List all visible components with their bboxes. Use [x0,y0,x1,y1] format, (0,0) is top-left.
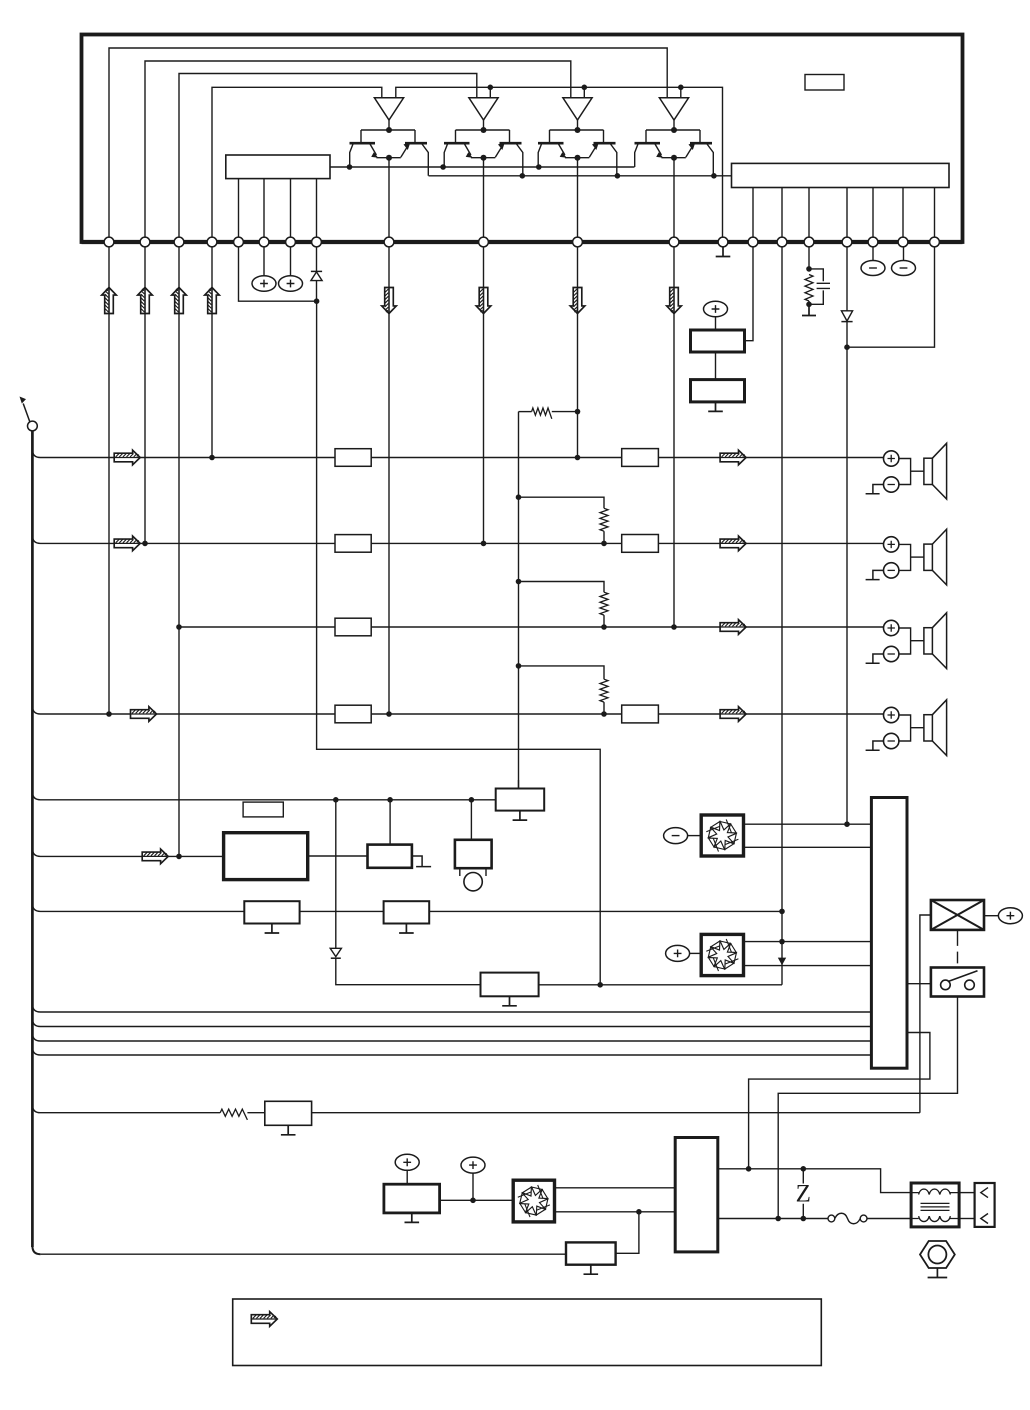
wire: CH4 output net down to row3 [673,247,675,627]
voltage regulator block (thick) 2 [691,380,745,402]
junction: out2/row2 [481,541,487,547]
junction: out3/feedback tap [575,409,581,415]
wire: control block pin 5 [872,188,874,243]
block A on row7 [244,901,299,923]
speaker SP3 with +/- terminals (CH3) [866,613,947,669]
wire: feedback ladder into supply block top [518,780,520,789]
junction: rail1/Q1 [347,164,353,170]
wire: emitter rail 1 [330,166,635,168]
legend box [233,1299,822,1366]
op-amp A4 + output pair Q4 (CH4) [635,98,714,242]
junction: R7/row3 [601,624,607,630]
wire: pin 934 to D2 node [847,247,935,347]
row5 supply block [496,789,545,811]
junction: ladder tap 2 [516,579,522,585]
terminal (-) at N1 [664,828,702,844]
row1 wire (CH1 input) [32,450,883,458]
block B on row7 [384,901,430,923]
illumination lamp L1 [931,900,984,930]
junction: input1/row4 [106,711,112,717]
signal-flow arrow (down) on output net x=577.5 [570,288,585,314]
junction: input2/row2 [142,541,148,547]
signal-flow arrow on row at y=543.4 (right) [720,536,746,551]
junction: R6/row2 [601,541,607,547]
junction: upper line / Z [801,1166,807,1172]
series component R1b on row [622,449,659,467]
speaker SP2 with +/- terminals (CH2) [866,529,947,585]
wire: pin4 input net down to row1 [211,247,213,458]
junction: row5/supply-diode net [333,797,339,803]
junction: rail2/Q4 [711,173,717,179]
row4 wire (CH4 input) [32,706,883,714]
feedback ladder vertical net [518,412,520,789]
junction: N3 lower / block E riser [636,1209,642,1215]
capacitor C2 (+) at pin 290 [279,247,303,291]
capacitor C1 (+) at pin 264 [252,247,276,291]
series component R4a on row 4 [335,705,371,723]
terminal (+) at N2 [666,945,702,961]
junction: switch net at battery line [775,1216,781,1222]
junction: D2 node [844,344,850,350]
capacitor C3 (-) at pin 873 [861,247,885,276]
series component R1a on row 1 [335,449,371,467]
diode D2 at pin 847 (cathode down) [841,247,852,347]
block E (filter) [566,1242,616,1264]
wire: block C output to pin782 net [539,966,782,985]
ground below block D [405,1213,420,1223]
bus wire 4 from trunk to CN1 [32,1047,871,1055]
bus wire 3 from trunk to CN1 [32,1033,871,1041]
feedback resistor R7 to row3 [519,582,609,628]
label box above main block [243,802,283,817]
signal-flow arrow (down) on output net x=674 [667,288,682,314]
antenna/source terminal at trunk top [20,397,38,431]
signal-flow arrow (up) on pin net x=145 [138,288,153,314]
motor symbol below block2 [460,868,486,891]
op-amp A2 + output pair Q2 (CH2) [444,98,523,242]
wire: lamp to dial-lamp feed [920,915,931,1113]
power switch S1 [931,968,984,997]
junction: ladder tap 1 [516,494,522,500]
junction: input3/row6 [176,854,182,860]
junction: lamp path at power line [746,1166,752,1172]
ground below block A [265,924,280,934]
series component R3a on row 3 [335,618,371,636]
IC pin circles (pins 1-20) [104,237,939,247]
junction: bias rail at A2 [488,85,494,98]
IC internal pre-driver block [226,155,330,179]
junction: D2 net at connector line [844,821,850,827]
capacitor C6 (+) above block D [395,1154,419,1184]
sub block 2 (motor) [455,840,492,868]
diode D3 on supply-diode net (cathode down) [330,948,341,958]
interference source box N2 [701,934,743,975]
wire: N1 upper output to connector [744,823,872,825]
interference source box N1 [701,815,743,856]
power connector block CN2 (bottom) [675,1138,718,1252]
wire: internal bias rail to pin 723 [396,87,723,242]
junction: lower line / Z [801,1216,807,1222]
junction: row5/block1 feed [387,797,393,803]
main harness trunk (vertical) [31,431,34,1247]
series component R3b on row [622,705,659,723]
wire: switch to battery line [778,997,957,1219]
row2 wire (CH2 input) [32,535,883,543]
interference source box N3 [513,1180,554,1222]
wire: D1 node down, across, down to supply block C [317,301,601,985]
speaker SP1 with +/- terminals (CH1) [866,443,947,499]
sub block 1 [368,845,412,868]
wire: pre-driver pin d [316,179,318,242]
wire: pin 238 to D1 node [239,247,317,301]
ground below block F [281,1125,296,1135]
junction: bias rail at A3 [582,85,588,98]
wire: N3 lower output to power block [555,1211,676,1213]
signal-flow arrow on row at y=457.5 (right) [720,450,746,465]
arrow terminal: pin782 at supply line [778,958,786,966]
signal-flow arrow on row at y=714 (left) [131,707,157,722]
chassis nut/screw ground [920,1241,955,1278]
junction: pin782/ACC line [779,939,785,945]
svg-text:Z: Z [796,1181,811,1208]
wire: block F to lamp vertical [312,1112,920,1114]
bus wire 1 from trunk to CN1 [32,1004,871,1012]
power unit block D [384,1184,440,1213]
legend signal-flow arrow [251,1312,277,1327]
wire: T1 to plug lower [959,1218,975,1220]
wire: N3 upper output to power block [555,1187,676,1189]
wire: block2 feed from row5 [470,800,472,840]
junction: ladder tap 3 [516,663,522,669]
feedback resistor R6 to row2 [519,497,609,543]
wire: CN2 upper power line to transformer [718,1169,911,1193]
signal-flow arrow (down) on output net x=389 [382,288,397,314]
wire: pin2 input net down to row2 [144,247,146,543]
ground below block C [502,996,517,1006]
wire: CN2 lower power line to fuse [718,1218,828,1220]
junction: R8/row4 [601,711,607,717]
wire: control block pin 2 [781,188,783,243]
wire: R9 to block F [247,1112,264,1114]
junction: input3/row3 [176,624,182,630]
op-amp A3 + output pair Q3 (CH3) [538,98,617,242]
wire: D2 node down to ACC input line [846,347,848,824]
wire: control block pin 4 [846,188,848,243]
junction: out4/row3 [671,624,677,630]
row3 wire (CH3) [179,626,883,628]
wire: emitter rail 2 [429,175,732,177]
chassis tab at block1 [412,856,431,867]
mechanical link (dashed) lamp-switch [957,930,959,964]
junction: rail2/Q2 [520,173,526,179]
feedback resistor R8 to row4 [519,666,609,714]
wire: control block pin 3 [808,188,810,243]
wire: pin4 net to op-amp A1 top input [212,87,382,242]
junction: rail2/Q3 [615,173,621,179]
signal-flow arrow on row at y=457.5 (left) [114,450,140,465]
junction: rail1/Q2 [440,164,446,170]
main function block (thick) [224,833,308,880]
wire: pin 753 to regulator block [745,247,754,341]
signal-flow arrow (up) on pin net x=109 [102,288,117,314]
feedback tap resistor R5 (horizontal) [519,408,578,419]
diode D1 at pin 316 (cathode up) [311,247,322,301]
wire: block1 feed from row5 [389,800,391,845]
main connector CN1 (tall) [871,798,907,1069]
wire: control block pin 7 [934,188,936,243]
junction: out1/row4 [386,711,392,717]
ground below row5 supply block [513,811,528,821]
wire: pre-driver pin b [263,179,265,242]
capacitor C7 (+) at N3 input [461,1157,485,1200]
signal-flow arrow (up) on pin net x=179 [172,288,187,314]
wire: block E to N3 lower net [616,1212,639,1254]
series component R2b on row [622,535,659,553]
fuse F1 [828,1213,867,1224]
ground below block B [399,924,414,934]
wire: pin1 net to op-amp A4 top input [109,48,667,242]
wire: control block pin 1 [752,188,754,243]
wire: N2 lower output to connector [744,965,872,967]
wire: control block pin 6 [902,188,904,243]
AC plug connector [975,1183,995,1227]
IC U1 bottom pin rail [82,240,963,244]
signal-flow arrow on row at y=627 (right) [720,620,746,635]
junction: C7 tap [470,1198,476,1204]
wire: T1 to plug upper [959,1192,975,1194]
wire: pre-driver pin a [238,179,240,242]
wire: main block to block1 [308,855,368,857]
bus wire 2 from trunk to CN1 [32,1019,871,1027]
row7 wire (muting line) [32,903,782,911]
junction: supply line at block C output [597,982,603,988]
wire: fuse to transformer [867,1218,911,1220]
voltage regulator block (thick) 1 [691,330,745,352]
speaker SP4 with +/- terminals (CH4) [866,700,947,756]
wire: N2 upper output to connector [744,941,872,943]
ground below RC network [802,304,816,315]
surge absorber Z1 [796,1169,811,1219]
ground at pin 723 [716,247,731,257]
wire: block D to noise box N3 [440,1199,514,1201]
ground below block E [584,1265,599,1275]
audio power amplifier IC U1 (outline) [82,35,963,243]
wire: pin 782 long net [781,247,783,966]
ground below regulator 2 [708,402,723,412]
RC network at pin 809 [805,247,830,307]
wire: regulator 1 to 2 [715,352,717,380]
wire: pre-driver pin c [290,179,292,242]
bottom trunk branch wire [40,1253,566,1255]
wire: pin3 input net down through row3 to row6 [178,247,180,856]
IC part-number label box [805,75,844,91]
supply block C [481,973,539,997]
row8 wire (dial lamp feed) [32,1105,220,1113]
wire: pin3 net to op-amp A2 top input [179,74,477,243]
junction: rail1/Q3 [536,164,542,170]
junction: pin782/row7 [779,909,785,915]
line filter/transformer T1 [911,1183,959,1227]
junction: input4/row1 [209,455,215,461]
op-amp A1 + output pair Q1 (CH1) [350,98,429,242]
wire: CH2 output net down to row2 [483,247,485,543]
resistor R9 on row8 [220,1109,247,1120]
signal-flow arrow on row at y=543.4 (left) [114,536,140,551]
wire: pin1 input net down to row4 [108,247,110,714]
signal-flow arrow (up) on pin net x=212 [205,288,220,314]
capacitor C4 (-) at pin 903 [892,247,916,276]
IC internal control block [732,163,950,187]
signal-flow arrow on row6 [142,849,168,864]
row5 wire (supply feed) [32,792,495,800]
wire: N1 lower output to connector [744,846,872,848]
terminal (+) at lamp [984,908,1022,924]
signal-flow arrow (down) on output net x=483.5 [476,288,491,314]
wire: row5 tap down to block C [336,800,481,985]
trunk bottom bend to bottom branch [32,1246,40,1254]
junction: row5/block2 feed [469,797,475,803]
junction: out3/row1 [575,455,581,461]
series component R2a on row 2 [335,535,371,553]
junction: D1 node [314,298,320,304]
wire: CH3 output net down to row1 [577,247,579,458]
signal-flow arrow on row at y=714 (right) [720,707,746,722]
wire: CN1 to switch [907,983,931,985]
wire: pin2 net to op-amp A3 top input [145,61,571,242]
row6 wire (to main block) [32,848,223,856]
wire: CH1 output net down to row4 [388,247,390,714]
block F on row8 [265,1101,312,1125]
wire: CN1 to illumination lamp path [749,1033,930,1169]
junction: bias rail at A4 [678,85,684,98]
capacitor C5 (+) above regulator [704,301,728,330]
